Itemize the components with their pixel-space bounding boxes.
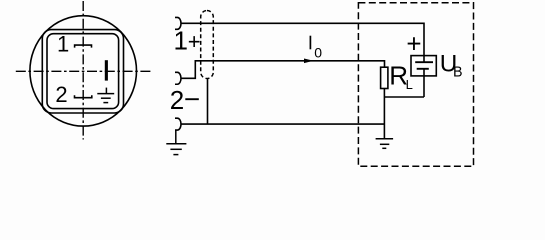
wire: shield drain (207, 79, 209, 124)
pin 2 contact staple (75, 95, 92, 97)
svg-text:2: 2 (170, 85, 184, 115)
svg-text:+: + (188, 29, 201, 54)
socket contact 3 (175, 118, 181, 130)
svg-text:1: 1 (174, 26, 188, 56)
wire: bottom rail to battery (384, 96, 424, 98)
pin 1 contact staple (75, 45, 92, 48)
ground (in box) (376, 139, 394, 149)
svg-text:0: 0 (314, 45, 322, 61)
horizontal centerline (16, 70, 151, 72)
svg-text:1: 1 (57, 32, 69, 57)
connector face circle (30, 16, 137, 126)
ground (left) (166, 130, 186, 154)
wire: RL bottom to ground (383, 89, 385, 139)
cable shield (201, 11, 214, 79)
battery top stem (423, 56, 425, 63)
wire: contact3 bottom (181, 123, 384, 125)
wire: contact2 step to RL (181, 61, 385, 79)
battery bottom stem (423, 69, 425, 76)
minus sign of label 2- (185, 98, 199, 100)
connector insert inner square (47, 34, 119, 109)
vertical centerline (82, 1, 84, 140)
wire: contact1 to battery + (181, 23, 424, 55)
connector insert outer square (42, 30, 123, 113)
dashed box (instrument) (358, 3, 473, 167)
svg-text:B: B (453, 65, 463, 81)
battery plates (415, 62, 433, 69)
current arrow Io (304, 59, 314, 64)
battery UB box (411, 56, 436, 76)
svg-text:+: + (406, 28, 421, 58)
wire: battery to bottom rail (423, 76, 425, 97)
svg-text:2: 2 (55, 82, 67, 107)
resistor RL (381, 67, 388, 88)
key bar (105, 60, 108, 80)
socket contact 2 (175, 72, 181, 84)
I stroke of Io label (309, 36, 311, 50)
socket contact 1 (175, 17, 181, 29)
connector ground symbol (97, 88, 114, 103)
svg-text:L: L (406, 77, 413, 92)
